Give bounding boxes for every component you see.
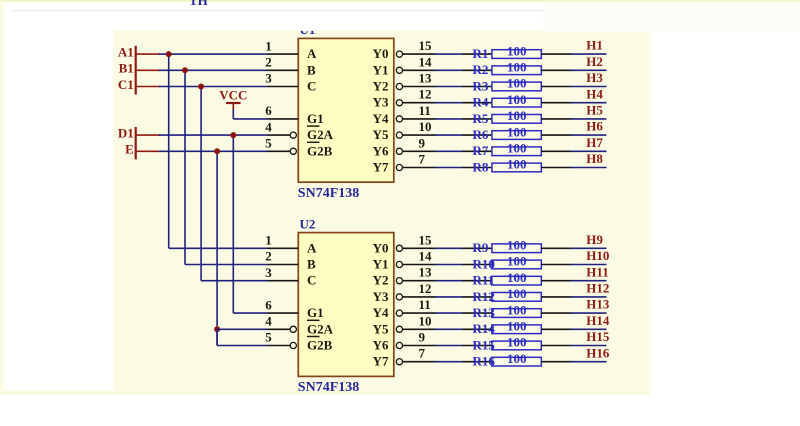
bubble U2 Y5 xyxy=(396,326,402,332)
wire G2A-U2 horizontal xyxy=(217,328,267,330)
svg-text:C: C xyxy=(307,79,316,94)
pin stub U2 G2A xyxy=(268,328,291,330)
svg-text:7: 7 xyxy=(419,152,426,167)
pin stub U1 Y0 xyxy=(402,53,436,55)
resistor R8 left pin xyxy=(463,167,493,169)
svg-text:G1: G1 xyxy=(307,111,324,126)
svg-text:13: 13 xyxy=(419,265,433,280)
wire H3 tail xyxy=(571,86,607,88)
resistor R9 right pin xyxy=(541,247,571,249)
wire B-U2 horizontal xyxy=(185,264,268,266)
wire H13 segment a xyxy=(435,312,463,314)
resistor R16 right pin xyxy=(541,361,571,363)
svg-text:VCC: VCC xyxy=(219,88,247,103)
resistor R15 body xyxy=(492,341,541,350)
svg-text:H1: H1 xyxy=(586,38,603,53)
wire D1 red stub xyxy=(136,134,160,136)
svg-text:Y7: Y7 xyxy=(373,160,389,175)
svg-text:R6: R6 xyxy=(473,127,489,142)
resistor R1 body xyxy=(492,50,541,59)
wire A-U2 horizontal xyxy=(169,247,268,249)
svg-text:3: 3 xyxy=(265,265,272,280)
wire H2 tail xyxy=(571,69,607,71)
resistor R16 left pin xyxy=(463,361,493,363)
bubble U1 Y2 xyxy=(396,83,402,89)
resistor R6 right pin xyxy=(541,134,571,136)
bubble U2 G2A xyxy=(290,326,296,332)
wire A1 red stub xyxy=(136,53,160,55)
bubble U1 Y6 xyxy=(396,148,402,154)
svg-text:R10: R10 xyxy=(473,256,495,271)
resistor R16 body xyxy=(492,357,541,366)
svg-text:Y4: Y4 xyxy=(373,305,389,320)
svg-text:100: 100 xyxy=(507,141,527,156)
svg-text:3: 3 xyxy=(265,71,272,86)
pin stub U2 Y4 xyxy=(402,312,436,314)
svg-text:R5: R5 xyxy=(473,111,489,126)
resistor R8 right pin xyxy=(541,167,571,169)
svg-text:4: 4 xyxy=(265,314,272,329)
svg-text:A: A xyxy=(307,240,317,255)
port bar D1/E group xyxy=(135,127,137,159)
pin stub U2 C xyxy=(268,280,299,282)
resistor R13 body xyxy=(492,309,541,318)
wire H10 tail xyxy=(571,264,607,266)
wire H13 tail xyxy=(571,312,607,314)
resistor R12 body xyxy=(492,293,541,302)
pin stub U2 Y3 xyxy=(402,296,436,298)
pin stub U1 G2B xyxy=(268,150,291,152)
wire H12 tail xyxy=(571,296,607,298)
resistor R7 left pin xyxy=(463,150,493,152)
svg-text:C: C xyxy=(307,273,316,288)
svg-text:U2: U2 xyxy=(300,216,316,231)
wire C1 horizontal xyxy=(159,86,268,88)
svg-text:Y7: Y7 xyxy=(373,354,389,369)
bubble U1 Y0 xyxy=(396,51,402,57)
VCC stem red xyxy=(232,103,234,111)
resistor R10 left pin xyxy=(463,264,493,266)
svg-text:SN74F138: SN74F138 xyxy=(298,186,359,201)
svg-text:5: 5 xyxy=(265,136,272,151)
wire H1 segment a xyxy=(435,53,463,55)
svg-text:H13: H13 xyxy=(586,297,610,312)
wire H11 tail xyxy=(571,280,607,282)
svg-text:G2B: G2B xyxy=(307,338,333,353)
svg-text:H8: H8 xyxy=(586,151,603,166)
pin stub U2 Y0 xyxy=(402,247,436,249)
svg-text:6: 6 xyxy=(265,103,272,118)
pin stub U2 Y2 xyxy=(402,280,436,282)
bubble U2 Y2 xyxy=(396,278,402,284)
svg-text:H12: H12 xyxy=(586,281,609,296)
svg-text:R16: R16 xyxy=(473,354,496,369)
bubble U2 Y1 xyxy=(396,261,402,267)
wire VCC to G1 U1 xyxy=(233,118,267,120)
bubble U2 Y7 xyxy=(396,359,402,365)
resistor R6 body xyxy=(492,131,541,140)
pin stub U1 Y3 xyxy=(402,102,436,104)
wire H2 segment a xyxy=(435,69,463,71)
svg-text:10: 10 xyxy=(419,313,432,328)
wire B1 red stub xyxy=(136,69,160,71)
bubble U2 G2B xyxy=(290,342,296,348)
resistor R14 left pin xyxy=(463,328,493,330)
svg-text:13: 13 xyxy=(419,71,433,86)
pin stub U1 Y5 xyxy=(402,134,436,136)
resistor R1 left pin xyxy=(463,53,493,55)
resistor R3 left pin xyxy=(463,86,493,88)
resistor R2 body xyxy=(492,66,541,75)
svg-text:R13: R13 xyxy=(473,305,496,320)
white overlay top xyxy=(108,0,800,31)
svg-text:G2B: G2B xyxy=(307,143,333,158)
pin stub U1 Y1 xyxy=(402,69,436,71)
svg-text:C1: C1 xyxy=(118,77,134,92)
resistor R1 right pin xyxy=(541,53,571,55)
off-white top right xyxy=(543,2,800,33)
svg-text:100: 100 xyxy=(507,76,527,91)
wire E vertical to G2B U2 xyxy=(216,329,218,345)
VCC bar xyxy=(226,102,241,104)
wire H12 segment a xyxy=(435,296,463,298)
svg-text:100: 100 xyxy=(507,254,527,269)
svg-text:B: B xyxy=(307,62,316,77)
svg-text:9: 9 xyxy=(419,330,426,345)
svg-text:2: 2 xyxy=(265,55,272,70)
resistor R5 right pin xyxy=(541,118,571,120)
wire E vertical xyxy=(216,151,218,345)
svg-text:Y1: Y1 xyxy=(373,257,389,272)
svg-text:R8: R8 xyxy=(473,159,489,174)
svg-text:A: A xyxy=(307,46,317,61)
wire H10 segment a xyxy=(435,264,463,266)
svg-text:R12: R12 xyxy=(473,289,495,304)
wire H5 segment a xyxy=(435,118,463,120)
svg-text:R7: R7 xyxy=(473,143,489,158)
wire H14 segment a xyxy=(435,328,463,330)
junction E xyxy=(214,148,220,154)
svg-text:H10: H10 xyxy=(586,248,609,263)
wire B1 horizontal xyxy=(159,69,268,71)
pin stub U1 Y4 xyxy=(402,118,436,120)
resistor R15 right pin xyxy=(541,345,571,347)
pin stub U2 A xyxy=(268,247,299,249)
svg-text:100: 100 xyxy=(507,60,527,75)
junction A1 xyxy=(166,51,172,57)
svg-text:Y1: Y1 xyxy=(373,62,389,77)
svg-text:H15: H15 xyxy=(586,329,610,344)
white overlay right xyxy=(650,31,800,396)
svg-text:A1: A1 xyxy=(118,44,134,59)
svg-text:100: 100 xyxy=(507,92,527,107)
wire C1 red stub xyxy=(136,86,160,88)
bubble U1 G2B xyxy=(290,148,296,154)
svg-text:Y0: Y0 xyxy=(373,46,389,61)
wire H6 segment a xyxy=(435,134,463,136)
svg-text:5: 5 xyxy=(265,330,272,345)
svg-text:H11: H11 xyxy=(586,264,608,279)
resistor R4 body xyxy=(492,98,541,107)
svg-text:H14: H14 xyxy=(586,313,610,328)
wire A1 horizontal xyxy=(159,53,268,55)
svg-text:12: 12 xyxy=(419,87,432,102)
VCC stem blue xyxy=(232,110,234,119)
overline G2A xyxy=(307,125,320,127)
svg-text:H3: H3 xyxy=(586,70,603,85)
svg-text:TH: TH xyxy=(189,0,208,8)
svg-text:H6: H6 xyxy=(586,119,603,134)
resistor R14 right pin xyxy=(541,328,571,330)
wire H16 segment a xyxy=(435,361,463,363)
svg-text:H4: H4 xyxy=(586,86,603,101)
pin stub U2 G2B xyxy=(268,345,291,347)
bubble U2 Y4 xyxy=(396,310,402,316)
junction B1 xyxy=(182,67,188,73)
svg-text:1: 1 xyxy=(265,233,272,248)
resistor R9 left pin xyxy=(463,247,493,249)
bubble U1 Y4 xyxy=(396,116,402,122)
svg-text:14: 14 xyxy=(419,249,433,264)
wire H3 segment a xyxy=(435,86,463,88)
resistor R9 body xyxy=(492,244,541,253)
svg-text:100: 100 xyxy=(507,319,527,334)
svg-text:100: 100 xyxy=(507,157,527,172)
faint toolbar line xyxy=(11,10,545,11)
wire C-U2 horizontal xyxy=(201,280,267,282)
white overlay bottom xyxy=(0,395,800,421)
svg-text:G2A: G2A xyxy=(307,321,334,336)
bubble U2 Y3 xyxy=(396,294,402,300)
svg-text:100: 100 xyxy=(507,270,527,285)
wire H4 segment a xyxy=(435,102,463,104)
wire H8 tail xyxy=(571,167,607,169)
svg-text:Y4: Y4 xyxy=(373,111,389,126)
pin stub U1 A xyxy=(268,53,299,55)
svg-text:Y2: Y2 xyxy=(373,79,389,94)
pin stub U2 B xyxy=(268,264,299,266)
wire H15 segment a xyxy=(435,345,463,347)
resistor R12 left pin xyxy=(463,296,493,298)
svg-text:7: 7 xyxy=(419,346,426,361)
svg-text:Y6: Y6 xyxy=(373,143,389,158)
resistor R11 left pin xyxy=(463,280,493,282)
wire A1 vertical xyxy=(168,54,170,248)
pin stub U1 G2A xyxy=(268,134,291,136)
port bar ABC group xyxy=(135,46,137,95)
pin stub U2 G1 xyxy=(268,312,299,314)
wire C1 vertical xyxy=(200,87,202,281)
resistor R11 body xyxy=(492,276,541,285)
pin stub U1 G1 xyxy=(268,118,299,120)
wire G2B-U2 horizontal xyxy=(217,345,267,347)
resistor R4 right pin xyxy=(541,102,571,104)
svg-text:Y5: Y5 xyxy=(373,321,389,336)
resistor R7 right pin xyxy=(541,150,571,152)
svg-text:E: E xyxy=(125,142,134,157)
resistor R13 left pin xyxy=(463,312,493,314)
wire E red stub xyxy=(136,150,160,152)
resistor R4 left pin xyxy=(463,102,493,104)
svg-text:H9: H9 xyxy=(586,232,603,247)
pin stub U2 Y1 xyxy=(402,264,436,266)
svg-text:100: 100 xyxy=(507,238,527,253)
resistor R3 body xyxy=(492,82,541,91)
svg-text:14: 14 xyxy=(419,54,433,69)
svg-text:H5: H5 xyxy=(586,103,603,118)
schematic sheet background xyxy=(4,31,650,395)
svg-text:G2A: G2A xyxy=(307,127,334,142)
wire H15 tail xyxy=(571,345,607,347)
bubble U1 Y5 xyxy=(396,132,402,138)
wire H8 segment a xyxy=(435,167,463,169)
svg-text:R11: R11 xyxy=(473,273,495,288)
bubble U1 Y1 xyxy=(396,67,402,73)
svg-text:R2: R2 xyxy=(473,62,489,77)
wire H1 tail xyxy=(571,53,607,55)
svg-text:11: 11 xyxy=(419,297,431,312)
resistor R11 right pin xyxy=(541,280,571,282)
junction D1 xyxy=(230,132,236,138)
svg-text:100: 100 xyxy=(507,302,527,317)
junction E-G2A xyxy=(214,326,220,332)
svg-text:10: 10 xyxy=(419,119,432,134)
svg-text:12: 12 xyxy=(419,281,432,296)
svg-text:100: 100 xyxy=(507,43,527,58)
resistor R13 right pin xyxy=(541,312,571,314)
wire D1 horizontal xyxy=(159,134,268,136)
pin stub U1 B xyxy=(268,69,299,71)
svg-text:6: 6 xyxy=(265,297,272,312)
pin stub U1 Y7 xyxy=(402,167,436,169)
resistor R5 body xyxy=(492,115,541,124)
resistor R8 body xyxy=(492,163,541,172)
svg-text:100: 100 xyxy=(507,351,527,366)
svg-text:R3: R3 xyxy=(473,78,489,93)
overline G2B xyxy=(307,336,320,338)
resistor R14 body xyxy=(492,325,541,334)
svg-text:4: 4 xyxy=(265,119,272,134)
wire H7 tail xyxy=(571,150,607,152)
resistor R2 right pin xyxy=(541,69,571,71)
junction C1 xyxy=(198,84,204,90)
svg-text:H2: H2 xyxy=(586,54,603,69)
resistor R5 left pin xyxy=(463,118,493,120)
wire H5 tail xyxy=(571,118,607,120)
bubble U1 Y3 xyxy=(396,100,402,106)
svg-text:SN74F138: SN74F138 xyxy=(298,380,359,395)
pin stub U1 Y6 xyxy=(402,150,436,152)
overline G2A xyxy=(307,319,320,321)
svg-text:100: 100 xyxy=(507,124,527,139)
wire H9 tail xyxy=(571,247,607,249)
cream left strip xyxy=(0,0,4,395)
pin stub U1 C xyxy=(268,86,299,88)
svg-text:2: 2 xyxy=(265,249,272,264)
wire H7 segment a xyxy=(435,150,463,152)
svg-text:Y5: Y5 xyxy=(373,127,389,142)
white overlay left xyxy=(4,0,113,390)
overline G2B xyxy=(307,141,320,143)
svg-text:100: 100 xyxy=(507,286,527,301)
bubble U1 Y7 xyxy=(396,164,402,170)
pin stub U2 Y7 xyxy=(402,361,436,363)
svg-text:11: 11 xyxy=(419,103,431,118)
svg-text:15: 15 xyxy=(419,38,433,53)
svg-text:G1: G1 xyxy=(307,305,324,320)
pin stub U2 Y6 xyxy=(402,345,436,347)
resistor R7 body xyxy=(492,147,541,156)
wire H6 tail xyxy=(571,134,607,136)
svg-text:Y2: Y2 xyxy=(373,273,389,288)
resistor R3 right pin xyxy=(541,86,571,88)
svg-text:H16: H16 xyxy=(586,345,610,360)
resistor R2 left pin xyxy=(463,69,493,71)
wire D1 vertical xyxy=(232,135,234,313)
svg-text:B1: B1 xyxy=(119,61,134,76)
svg-text:Y6: Y6 xyxy=(373,338,389,353)
svg-text:D1: D1 xyxy=(118,125,134,140)
svg-text:B: B xyxy=(307,257,316,272)
svg-text:Y0: Y0 xyxy=(373,240,389,255)
svg-text:R1: R1 xyxy=(473,46,489,61)
wire H11 segment a xyxy=(435,280,463,282)
wire H9 segment a xyxy=(435,247,463,249)
op IC U1 box xyxy=(298,38,394,182)
resistor R6 left pin xyxy=(463,134,493,136)
wire H16 tail xyxy=(571,361,607,363)
svg-text:Y3: Y3 xyxy=(373,289,389,304)
wire G1-U2 horizontal xyxy=(233,312,267,314)
resistor R15 left pin xyxy=(463,345,493,347)
pin stub U1 Y2 xyxy=(402,86,436,88)
op IC U2 box xyxy=(298,233,394,377)
wire H14 tail xyxy=(571,328,607,330)
resistor R10 body xyxy=(492,260,541,269)
svg-text:R9: R9 xyxy=(473,240,489,255)
svg-text:R14: R14 xyxy=(473,321,496,336)
svg-text:9: 9 xyxy=(419,135,426,150)
bubble U2 Y6 xyxy=(396,342,402,348)
svg-text:R15: R15 xyxy=(473,337,496,352)
bubble U2 Y0 xyxy=(396,245,402,251)
pin stub U2 Y5 xyxy=(402,328,436,330)
resistor R10 right pin xyxy=(541,264,571,266)
svg-text:100: 100 xyxy=(507,108,527,123)
svg-text:15: 15 xyxy=(419,232,433,247)
bubble U1 G2A xyxy=(290,132,296,138)
svg-text:100: 100 xyxy=(507,335,527,350)
wire B1 vertical xyxy=(184,70,186,264)
svg-text:Y3: Y3 xyxy=(373,95,389,110)
wire E horizontal xyxy=(159,150,268,152)
svg-text:R4: R4 xyxy=(473,95,489,110)
resistor R12 right pin xyxy=(541,296,571,298)
wire H4 tail xyxy=(571,102,607,104)
svg-text:H7: H7 xyxy=(586,135,603,150)
top yellow band xyxy=(0,0,800,2)
svg-text:1: 1 xyxy=(265,38,272,53)
